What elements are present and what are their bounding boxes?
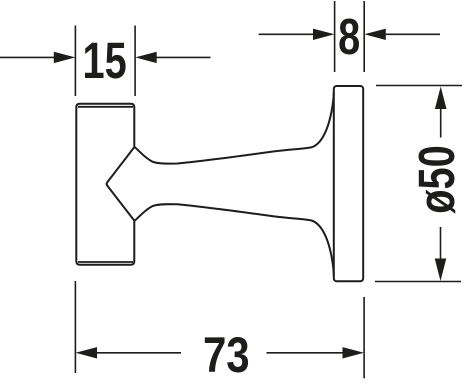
- svg-text:ø50: ø50: [408, 145, 465, 214]
- svg-text:73: 73: [203, 327, 250, 383]
- svg-text:15: 15: [82, 32, 126, 89]
- svg-text:8: 8: [338, 8, 360, 65]
